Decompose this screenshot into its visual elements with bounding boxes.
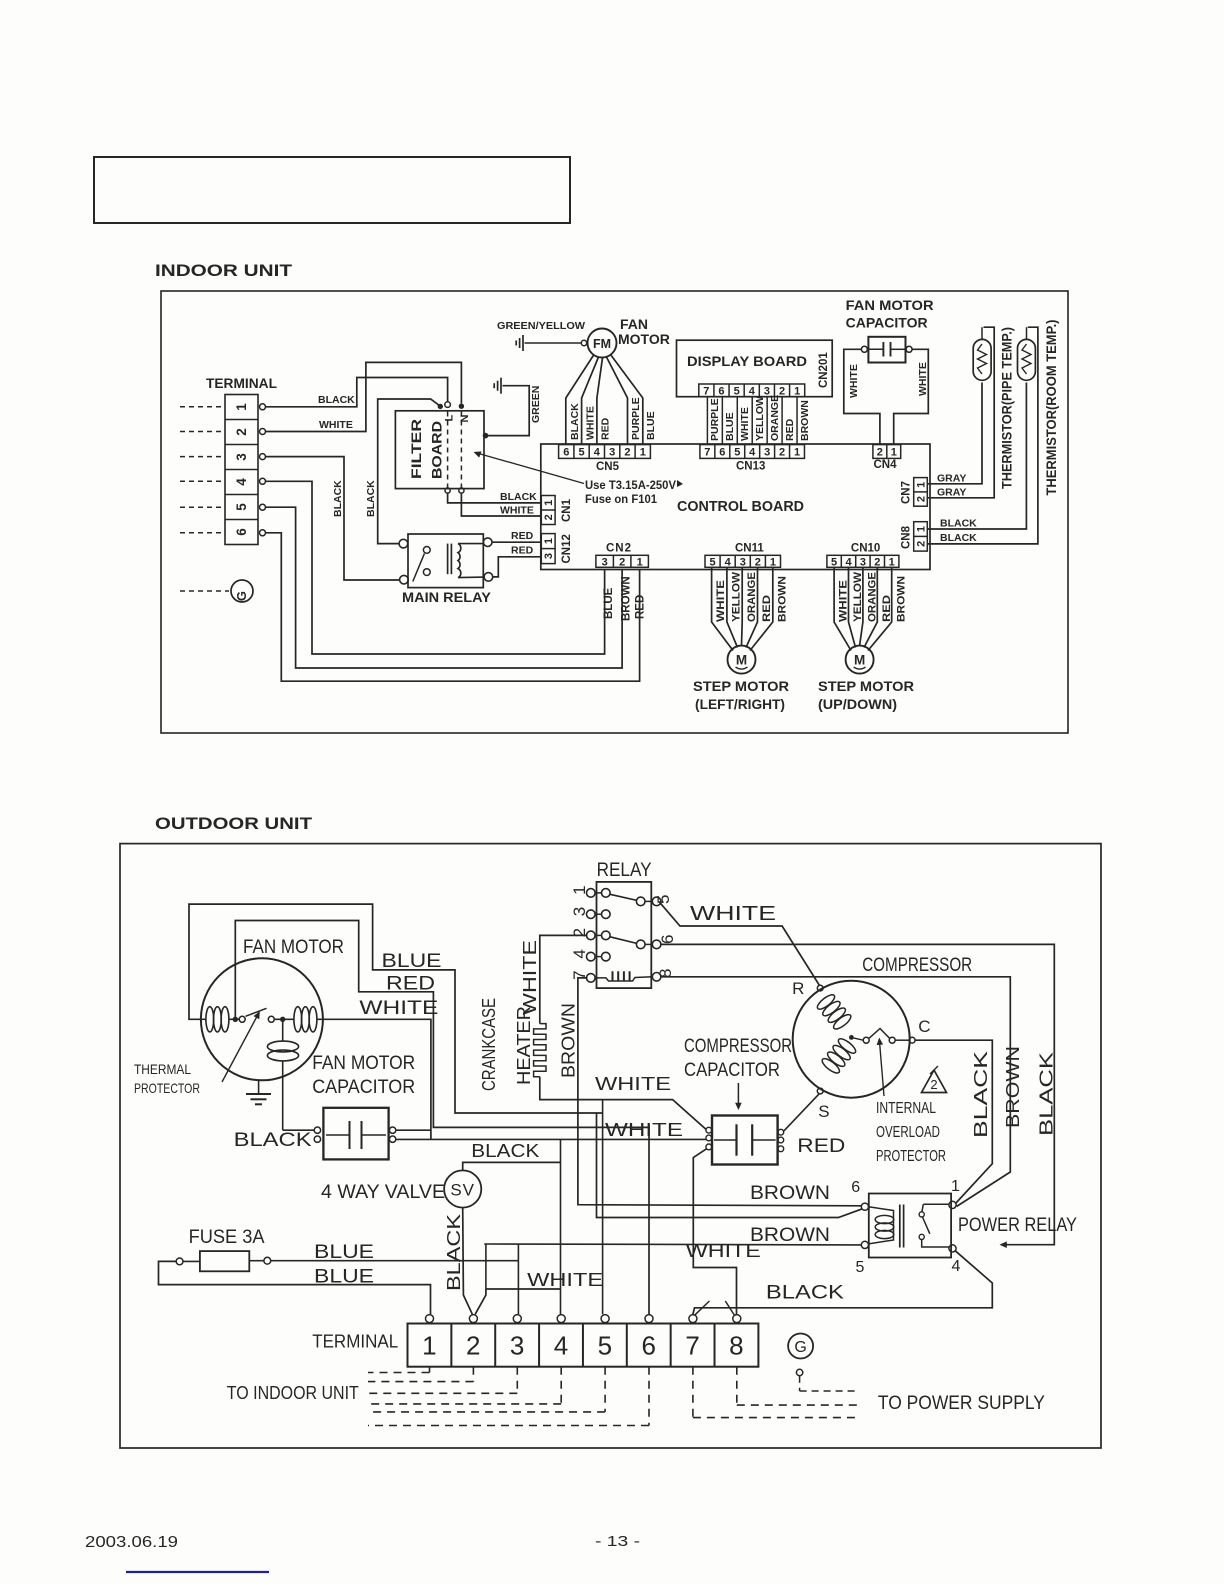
thermistor (pipe temp)	[973, 339, 991, 380]
svg-text:3: 3	[543, 553, 555, 559]
wire BLACK terminal3 to main relay lower pin	[266, 457, 400, 580]
wire capacitor to CN4-2	[844, 349, 880, 444]
wire ground to FM	[525, 342, 582, 344]
fan motor capacitor (outdoor)	[323, 1108, 388, 1160]
svg-text:WHITE: WHITE	[585, 406, 597, 440]
main relay (indoor)	[408, 534, 483, 588]
wire BLACK CN8-1 to thermistor	[928, 383, 1027, 530]
svg-text:2: 2	[874, 556, 880, 568]
svg-text:1: 1	[951, 1178, 960, 1195]
svg-text:TERMINAL: TERMINAL	[206, 376, 277, 391]
svg-text:RED: RED	[386, 974, 435, 995]
svg-text:BLACK: BLACK	[766, 1283, 844, 1304]
overload pointer arrow	[879, 1039, 884, 1096]
wire RED fan motor to terminal 6	[235, 921, 649, 1315]
svg-text:2: 2	[779, 446, 785, 458]
svg-text:RELAY: RELAY	[597, 860, 652, 881]
svg-text:BLUE: BLUE	[603, 587, 615, 619]
svg-text:OUTDOOR UNIT: OUTDOOR UNIT	[155, 814, 313, 833]
compressor centre junction and overload contacts	[849, 1035, 854, 1040]
svg-text:RED: RED	[511, 545, 534, 557]
svg-text:WHITE: WHITE	[527, 1270, 603, 1290]
connector CN8	[914, 522, 928, 551]
svg-text:BLACK: BLACK	[500, 491, 537, 503]
fan motor (outdooor)	[201, 958, 323, 1080]
svg-text:YELLOW: YELLOW	[754, 396, 766, 441]
svg-text:BLACK: BLACK	[318, 394, 355, 406]
svg-text:WHITE: WHITE	[739, 407, 751, 441]
wire fan motor to capacitor	[283, 1129, 315, 1131]
svg-text:BROWN: BROWN	[750, 1183, 830, 1204]
svg-text:4: 4	[749, 446, 756, 458]
svg-text:RED: RED	[511, 530, 534, 542]
svg-text:RED: RED	[797, 1136, 845, 1157]
svg-text:4: 4	[554, 1331, 568, 1361]
svg-text:M: M	[736, 653, 747, 668]
wire RED compressor S to capacitor	[784, 1094, 819, 1131]
svg-text:BLACK: BLACK	[971, 1051, 991, 1138]
thermal protector arrow	[222, 1012, 259, 1082]
dashed line N	[460, 412, 462, 489]
power relay pins	[861, 1203, 868, 1210]
svg-text:3: 3	[609, 446, 615, 458]
svg-text:ORANGE: ORANGE	[867, 572, 879, 622]
svg-text:BROWN: BROWN	[621, 576, 633, 621]
wires FM to CN5	[566, 355, 594, 444]
title box (empty)	[94, 157, 570, 223]
svg-text:STEP MOTOR: STEP MOTOR	[693, 678, 789, 694]
terminal block TB1 (indoor)	[225, 395, 258, 545]
svg-text:6: 6	[641, 1331, 655, 1361]
svg-text:CN201: CN201	[818, 352, 830, 388]
svg-text:WHITE: WHITE	[319, 419, 353, 431]
svg-text:2: 2	[624, 446, 630, 458]
svg-text:(UP/DOWN): (UP/DOWN)	[818, 696, 897, 712]
warning triangle	[922, 1070, 947, 1093]
svg-text:2: 2	[915, 541, 927, 547]
svg-text:5: 5	[578, 446, 584, 458]
terminal strip 1-8 (outdoor)	[408, 1324, 759, 1367]
svg-text:BROWN: BROWN	[799, 400, 811, 441]
svg-text:RED: RED	[635, 595, 647, 619]
svg-text:CN11: CN11	[735, 543, 764, 555]
svg-text:1: 1	[234, 403, 249, 411]
svg-text:BLACK: BLACK	[940, 532, 977, 544]
wire to terminal 5	[602, 1100, 604, 1315]
svg-text:BLACK: BLACK	[234, 1130, 312, 1151]
relay (outdoor)	[597, 882, 652, 988]
svg-text:1: 1	[570, 885, 589, 894]
svg-text:6: 6	[719, 446, 725, 458]
svg-text:3: 3	[740, 556, 746, 568]
ground symbol under fan motor	[258, 1080, 260, 1094]
svg-text:FM: FM	[593, 337, 611, 351]
svg-text:THERMAL: THERMAL	[134, 1061, 191, 1077]
wires CN11 to step motor left	[712, 567, 733, 650]
footer blue rule	[126, 1571, 269, 1573]
indoor unit enclosure box	[161, 291, 1068, 733]
fan motor left coil	[206, 1007, 214, 1032]
svg-text:5: 5	[734, 385, 740, 397]
svg-text:2: 2	[543, 514, 555, 520]
wire WHITE crankcase heater circuit	[540, 935, 588, 1023]
relay coil 7-8	[595, 977, 652, 981]
thermal protector switch arm	[246, 1008, 267, 1016]
connector CN4	[873, 445, 901, 459]
svg-text:G: G	[234, 591, 249, 601]
svg-text:2: 2	[619, 556, 625, 568]
wire BLACK main relay upper pin to filter board	[378, 399, 441, 544]
wire vertical junction column	[560, 1139, 562, 1289]
svg-text:COMPRESSOR: COMPRESSOR	[862, 955, 972, 976]
wire BROWN relay7 to power relay pin6	[578, 978, 861, 1206]
fan motor internal connections	[201, 1018, 206, 1020]
compressor capacitor pins	[706, 1127, 712, 1133]
terminal strip pins	[426, 1315, 434, 1323]
svg-text:CONTROL BOARD: CONTROL BOARD	[677, 499, 804, 515]
svg-text:CAPACITOR: CAPACITOR	[684, 1060, 780, 1081]
svg-text:BLACK: BLACK	[471, 1141, 539, 1161]
svg-text:BROWN: BROWN	[776, 576, 788, 622]
fuse (outdoor)	[200, 1251, 249, 1271]
junction dot left of L	[438, 404, 443, 409]
svg-text:1: 1	[915, 482, 927, 488]
power relay coil	[875, 1215, 894, 1223]
ground symbol at filter board	[500, 378, 502, 394]
wire BLACK relay6 to power relay (right side)	[660, 944, 1054, 1244]
svg-text:RED: RED	[881, 595, 893, 622]
svg-text:SV: SV	[450, 1181, 475, 1200]
svg-text:HEATER: HEATER	[514, 1006, 534, 1085]
svg-text:PURPLE: PURPLE	[630, 397, 642, 440]
svg-text:4: 4	[845, 556, 852, 568]
svg-text:GRAY: GRAY	[937, 473, 966, 485]
wire BLACK terminal1 to filter board L	[266, 378, 448, 407]
svg-text:FILTER: FILTER	[408, 419, 424, 479]
step motor (left/right)	[728, 646, 756, 674]
svg-text:4 WAY VALVE: 4 WAY VALVE	[321, 1182, 445, 1203]
svg-text:THERMISTOR(ROOM TEMP.): THERMISTOR(ROOM TEMP.)	[1044, 320, 1059, 496]
svg-text:YELLOW: YELLOW	[731, 571, 743, 622]
svg-text:R: R	[792, 979, 804, 998]
junction dot N	[459, 404, 464, 409]
svg-text:5: 5	[856, 1259, 865, 1276]
svg-text:FUSE 3A: FUSE 3A	[189, 1227, 265, 1248]
wire terminal6 to CN2 pin1	[266, 533, 640, 681]
svg-text:OVERLOAD: OVERLOAD	[876, 1124, 940, 1141]
wires CN10 to step motor right	[834, 567, 851, 650]
wire BLACK SV to terminal 2	[463, 1208, 473, 1315]
svg-text:3: 3	[764, 446, 770, 458]
svg-text:CN5: CN5	[596, 461, 620, 473]
svg-text:BLACK: BLACK	[569, 403, 581, 440]
dashed line L	[447, 412, 449, 489]
svg-text:CAPACITOR: CAPACITOR	[312, 1077, 415, 1098]
svg-text:6: 6	[563, 446, 569, 458]
compressor C terminal	[909, 1037, 915, 1043]
svg-text:BLUE: BLUE	[314, 1242, 374, 1263]
svg-text:BROWN: BROWN	[895, 576, 907, 622]
extra arm into terminal 7	[694, 1301, 709, 1315]
junction dot on filter board edge	[483, 433, 489, 439]
svg-text:POWER RELAY: POWER RELAY	[958, 1215, 1077, 1236]
svg-text:3: 3	[860, 556, 866, 568]
fan motor right coil	[294, 1007, 302, 1032]
svg-text:2: 2	[877, 446, 883, 458]
svg-text:2: 2	[930, 1077, 937, 1092]
svg-text:WHITE: WHITE	[595, 1074, 671, 1094]
wire GREEN ground to filter board	[488, 386, 529, 436]
svg-text:FAN: FAN	[620, 316, 648, 332]
svg-text:1: 1	[543, 538, 555, 544]
svg-text:C: C	[918, 1017, 930, 1036]
wire RED main relay to CN12-1	[492, 541, 541, 543]
wire WHITE to terminal 4	[486, 1288, 561, 1290]
svg-text:3: 3	[234, 453, 249, 461]
connector CN2	[596, 555, 649, 567]
svg-text:WHITE: WHITE	[500, 505, 534, 517]
wire BLACK filter board to CN1-1	[448, 493, 541, 503]
compressor S winding	[836, 1036, 857, 1055]
svg-text:BLUE: BLUE	[724, 412, 736, 441]
svg-text:CN13: CN13	[736, 461, 765, 473]
svg-text:5: 5	[234, 503, 249, 511]
svg-text:1: 1	[794, 446, 800, 458]
wire BLACK compressor C down right side	[915, 1040, 992, 1203]
svg-text:5: 5	[654, 895, 673, 904]
compressor S terminal	[817, 1088, 823, 1094]
svg-text:GREEN/YELLOW: GREEN/YELLOW	[497, 320, 585, 332]
svg-text:PURPLE: PURPLE	[709, 398, 721, 441]
wire second feed to power relay pin6	[597, 1113, 863, 1218]
svg-text:5: 5	[831, 556, 837, 568]
fuse note arrow to filter board	[476, 453, 585, 484]
svg-text:BLACK: BLACK	[444, 1214, 464, 1291]
svg-text:CN7: CN7	[901, 481, 913, 504]
fan motor auxiliary coil	[282, 1021, 284, 1041]
svg-text:CN12: CN12	[561, 534, 573, 563]
dashed leads to indoor unit	[429, 1367, 431, 1373]
svg-text:2: 2	[915, 496, 927, 502]
connector CN12	[541, 534, 555, 564]
svg-text:2: 2	[234, 428, 249, 436]
wire RED main relay to CN12-3	[493, 557, 541, 577]
svg-text:PROTECTOR: PROTECTOR	[876, 1148, 946, 1165]
connector CN13	[700, 445, 805, 459]
wire WHITE capacitor to terminal 8	[693, 1149, 736, 1314]
svg-text:BROWN: BROWN	[559, 1003, 579, 1078]
svg-text:N: N	[459, 415, 471, 423]
main relay switch	[423, 547, 430, 554]
solenoid valve SV	[444, 1170, 481, 1207]
wire BLACK power relay pin4 to terminal 7	[693, 1251, 992, 1314]
outdoor unit enclosure box	[120, 844, 1101, 1448]
wire terminal5 to CN2 pin2	[266, 507, 623, 668]
svg-text:INTERNAL: INTERNAL	[876, 1100, 936, 1117]
svg-text:L: L	[444, 415, 456, 422]
svg-text:6: 6	[851, 1179, 860, 1196]
arrow to compressor capacitor	[737, 1083, 739, 1108]
svg-text:1: 1	[891, 446, 897, 458]
svg-text:5: 5	[734, 446, 740, 458]
wire heater to compressor capacitor	[540, 1077, 706, 1130]
relay pins left	[587, 889, 596, 898]
svg-text:TERMINAL: TERMINAL	[312, 1332, 398, 1352]
svg-text:1: 1	[543, 500, 555, 506]
wire terminal4 to CN2 pin3	[266, 481, 605, 654]
svg-text:MOTOR: MOTOR	[618, 331, 670, 347]
wire BLUE fuse to junction of terminal 3	[271, 1260, 519, 1262]
svg-text:STEP MOTOR: STEP MOTOR	[818, 678, 914, 694]
ground terminal G (outdoor)	[788, 1334, 813, 1359]
dashed leads into terminals 1-6	[180, 406, 224, 408]
svg-text:CN10: CN10	[851, 543, 880, 555]
svg-text:1: 1	[794, 385, 800, 397]
wire BLACK SV to junction	[463, 1162, 561, 1170]
svg-text:GREEN: GREEN	[530, 386, 542, 423]
svg-text:RED: RED	[784, 418, 796, 441]
dashed leads to power supply	[692, 1367, 694, 1418]
svg-text:1: 1	[637, 556, 643, 568]
svg-text:Fuse on F101: Fuse on F101	[585, 492, 657, 506]
svg-text:5: 5	[709, 556, 715, 568]
wire WHITE capacitor to compressor capacitor	[396, 1138, 706, 1140]
wire BROWN to power relay pin5	[484, 1243, 861, 1246]
svg-text:5: 5	[598, 1331, 612, 1361]
svg-text:BOARD: BOARD	[429, 421, 445, 479]
connector CN5	[559, 445, 651, 459]
svg-text:FAN MOTOR: FAN MOTOR	[243, 937, 344, 958]
svg-text:ORANGE: ORANGE	[746, 572, 758, 622]
filter board	[395, 411, 484, 489]
wire BLACK CN8-2 to thermistor top	[928, 327, 1038, 544]
pin L circle on filter board	[445, 402, 451, 408]
svg-text:4: 4	[749, 385, 756, 397]
svg-text:1: 1	[422, 1331, 436, 1361]
connector CN10	[827, 555, 899, 567]
fan motor FM (indoor)	[588, 329, 617, 358]
svg-text:4: 4	[594, 446, 601, 458]
svg-text:WHITE: WHITE	[605, 1120, 683, 1140]
svg-text:BLUE: BLUE	[382, 951, 442, 972]
svg-text:YELLOW: YELLOW	[852, 571, 864, 622]
display board	[677, 340, 833, 397]
svg-text:BROWN: BROWN	[750, 1225, 830, 1246]
compressor (outdoor)	[793, 981, 910, 1098]
svg-text:CN2: CN2	[606, 543, 632, 555]
svg-text:2: 2	[755, 556, 761, 568]
svg-text:WHITE: WHITE	[690, 903, 776, 925]
svg-text:3: 3	[510, 1331, 524, 1361]
svg-text:RED: RED	[600, 417, 612, 440]
display board connector	[699, 384, 805, 397]
svg-text:FAN MOTOR: FAN MOTOR	[312, 1053, 415, 1074]
svg-text:S: S	[818, 1102, 829, 1121]
svg-text:GRAY: GRAY	[937, 487, 966, 499]
step motor (up/down)	[846, 646, 874, 674]
main relay coil	[458, 544, 461, 578]
ground terminal G (indoor)	[180, 590, 229, 592]
svg-text:- 13 -: - 13 -	[595, 1534, 640, 1550]
svg-text:Use T3.15A-250V: Use T3.15A-250V	[585, 478, 676, 492]
relay switch 2-6	[610, 937, 637, 944]
svg-text:8: 8	[729, 1331, 743, 1361]
svg-text:BLACK: BLACK	[332, 480, 344, 517]
connector CN1	[541, 496, 555, 525]
wire BROWN relay8 to power relay pin1	[660, 977, 1010, 1207]
svg-text:4: 4	[952, 1258, 961, 1275]
svg-text:FAN MOTOR: FAN MOTOR	[846, 297, 934, 313]
relay switch 1-5	[610, 894, 637, 900]
svg-text:BLUE: BLUE	[645, 411, 657, 440]
ground symbol at fan motor	[522, 335, 524, 351]
svg-text:7: 7	[703, 385, 709, 397]
svg-text:BLACK: BLACK	[940, 518, 977, 530]
svg-text:WHITE: WHITE	[520, 940, 540, 1015]
wire junction to BROWN line and terminal 3	[517, 1244, 519, 1261]
svg-text:6: 6	[718, 385, 724, 397]
thermistor (room temp)	[1018, 339, 1036, 380]
wire capacitor upper right stub	[396, 1129, 431, 1131]
svg-text:6: 6	[234, 528, 249, 536]
svg-text:ORANGE: ORANGE	[769, 395, 781, 441]
svg-text:G: G	[794, 1339, 806, 1356]
filter board bottom pins	[445, 488, 450, 493]
wire GRAY CN7-2 to thermistor top	[928, 327, 995, 498]
compressor R winding	[815, 992, 836, 1011]
svg-text:4: 4	[570, 949, 589, 958]
svg-text:3: 3	[602, 556, 608, 568]
power relay switch	[923, 1203, 949, 1205]
svg-text:(LEFT/RIGHT): (LEFT/RIGHT)	[695, 696, 785, 712]
svg-text:PROTECTOR: PROTECTOR	[134, 1080, 200, 1096]
extra arm into terminal 8	[725, 1301, 734, 1315]
power relay (outdoor)	[869, 1194, 951, 1258]
svg-text:CN4: CN4	[874, 459, 898, 471]
svg-text:BLUE: BLUE	[314, 1267, 374, 1288]
svg-text:CAPACITOR: CAPACITOR	[846, 315, 928, 331]
svg-text:MAIN RELAY: MAIN RELAY	[402, 590, 491, 605]
compressor R terminal	[817, 985, 823, 991]
svg-text:DISPLAY BOARD: DISPLAY BOARD	[687, 353, 807, 369]
main relay transformer core	[447, 544, 449, 575]
svg-text:1: 1	[915, 526, 927, 532]
svg-text:CN8: CN8	[901, 525, 913, 549]
svg-text:7: 7	[685, 1331, 699, 1361]
wires display board to CN13	[706, 397, 708, 445]
connector CN11	[705, 555, 781, 567]
svg-text:WHITE: WHITE	[848, 364, 860, 398]
wire GRAY CN7-1 to thermistor	[928, 383, 983, 484]
svg-text:CRANKCASE: CRANKCASE	[479, 998, 499, 1091]
svg-text:7: 7	[704, 446, 710, 458]
svg-text:WHITE: WHITE	[715, 580, 727, 622]
svg-text:2: 2	[466, 1331, 480, 1361]
terminal pins 1-6	[260, 404, 266, 410]
fan motor capacitor (indoor)	[868, 337, 905, 363]
crankcase heater element	[534, 1024, 546, 1077]
wire BLUE fan motor to terminal5 column	[189, 904, 603, 1113]
svg-text:THERMISTOR(PIPE TEMP.): THERMISTOR(PIPE TEMP.)	[1000, 327, 1015, 489]
connector CN7	[914, 478, 928, 507]
svg-text:TO POWER SUPPLY: TO POWER SUPPLY	[878, 1393, 1045, 1414]
svg-text:TO INDOOR UNIT: TO INDOOR UNIT	[227, 1383, 359, 1403]
svg-text:4: 4	[234, 478, 249, 486]
wire capacitor to CN4-1	[894, 349, 929, 444]
control board (indoor)	[541, 444, 930, 570]
svg-text:RED: RED	[761, 595, 773, 622]
svg-text:1: 1	[640, 446, 646, 458]
